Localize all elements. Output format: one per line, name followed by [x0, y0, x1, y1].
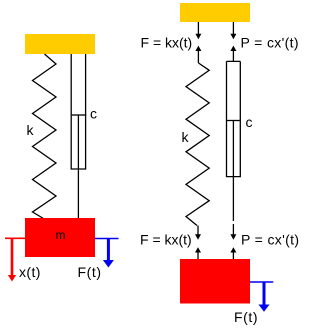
x(t) arrow	[11, 238, 14, 276]
damper cylinder (left)	[71, 54, 85, 169]
F(t) arrow (left)	[107, 239, 110, 262]
arrow: damper force on mass (down)	[232, 224, 234, 235]
mass block m (left)	[25, 218, 95, 257]
svg-text:k: k	[182, 129, 190, 145]
damper rod (left)	[77, 115, 79, 218]
svg-text:F(t): F(t)	[78, 264, 102, 280]
svg-text:F(t): F(t)	[234, 309, 258, 325]
damper piston (right)	[227, 120, 240, 122]
arrow: damper force up	[230, 46, 236, 51]
arrow: mass reaction up (damper side)	[230, 247, 236, 252]
svg-text:F = kx(t): F = kx(t)	[141, 35, 193, 51]
svg-text:F = kx(t): F = kx(t)	[140, 232, 192, 248]
arrow: damper reaction at ceiling (down)	[232, 22, 234, 35]
damper piston (left)	[72, 114, 86, 116]
x(t) reference line	[5, 237, 25, 239]
svg-text:k: k	[27, 122, 35, 138]
arrow: mass reaction up (spring side)	[195, 247, 201, 252]
svg-text:m: m	[56, 228, 66, 242]
svg-text:x(t): x(t)	[19, 264, 41, 280]
F(t) arrow (right)	[263, 282, 266, 306]
F(t) reference line (left)	[95, 238, 119, 240]
spring k (right)	[186, 63, 209, 226]
svg-text:c: c	[246, 114, 253, 130]
svg-text:P = cx'(t): P = cx'(t)	[241, 232, 299, 248]
mass block (right)	[180, 259, 250, 304]
F(t) reference line (right)	[250, 281, 273, 283]
spring k (left)	[33, 54, 57, 219]
damper rod (right)	[232, 121, 234, 222]
ceiling (left fixed support)	[25, 34, 95, 54]
ceiling (right fixed support)	[180, 3, 250, 22]
svg-text:c: c	[90, 106, 97, 122]
arrow: spring reaction at ceiling (down)	[197, 22, 199, 35]
arrow: spring force on mass (down)	[197, 226, 199, 236]
svg-text:P = cx'(t): P = cx'(t)	[241, 35, 299, 51]
arrow: spring force up	[195, 46, 201, 51]
damper cylinder (right)	[227, 61, 241, 176]
